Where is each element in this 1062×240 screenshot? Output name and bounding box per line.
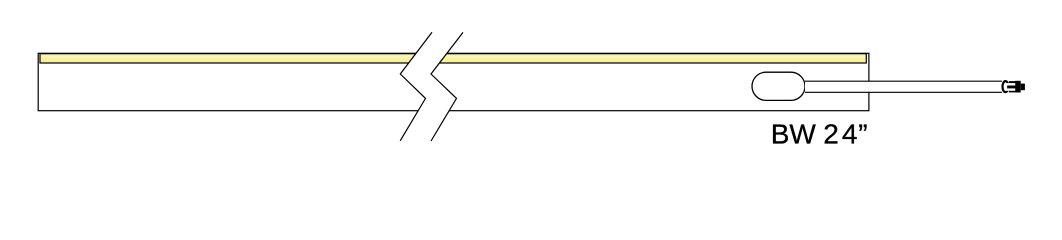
connector plug block (1015, 81, 1020, 93)
break line right (431, 32, 463, 141)
connector body (1009, 81, 1016, 92)
light bar housing (38, 53, 869, 110)
break line left (400, 32, 432, 141)
connector pin slot lower (1005, 88, 1016, 90)
connector pin slot upper (1005, 83, 1016, 85)
power lead wire (white core masks bar edge) (805, 82, 1003, 92)
LED lens strip (yellow) (40, 54, 866, 63)
connector ferrule (oval) (1003, 81, 1009, 92)
power lead wire outline (805, 81, 1002, 92)
break gap mask (400, 32, 463, 141)
svg-text:BW24”: BW24” (771, 119, 868, 150)
end-cap grommet oval (752, 72, 805, 100)
connector tip (1021, 84, 1025, 91)
